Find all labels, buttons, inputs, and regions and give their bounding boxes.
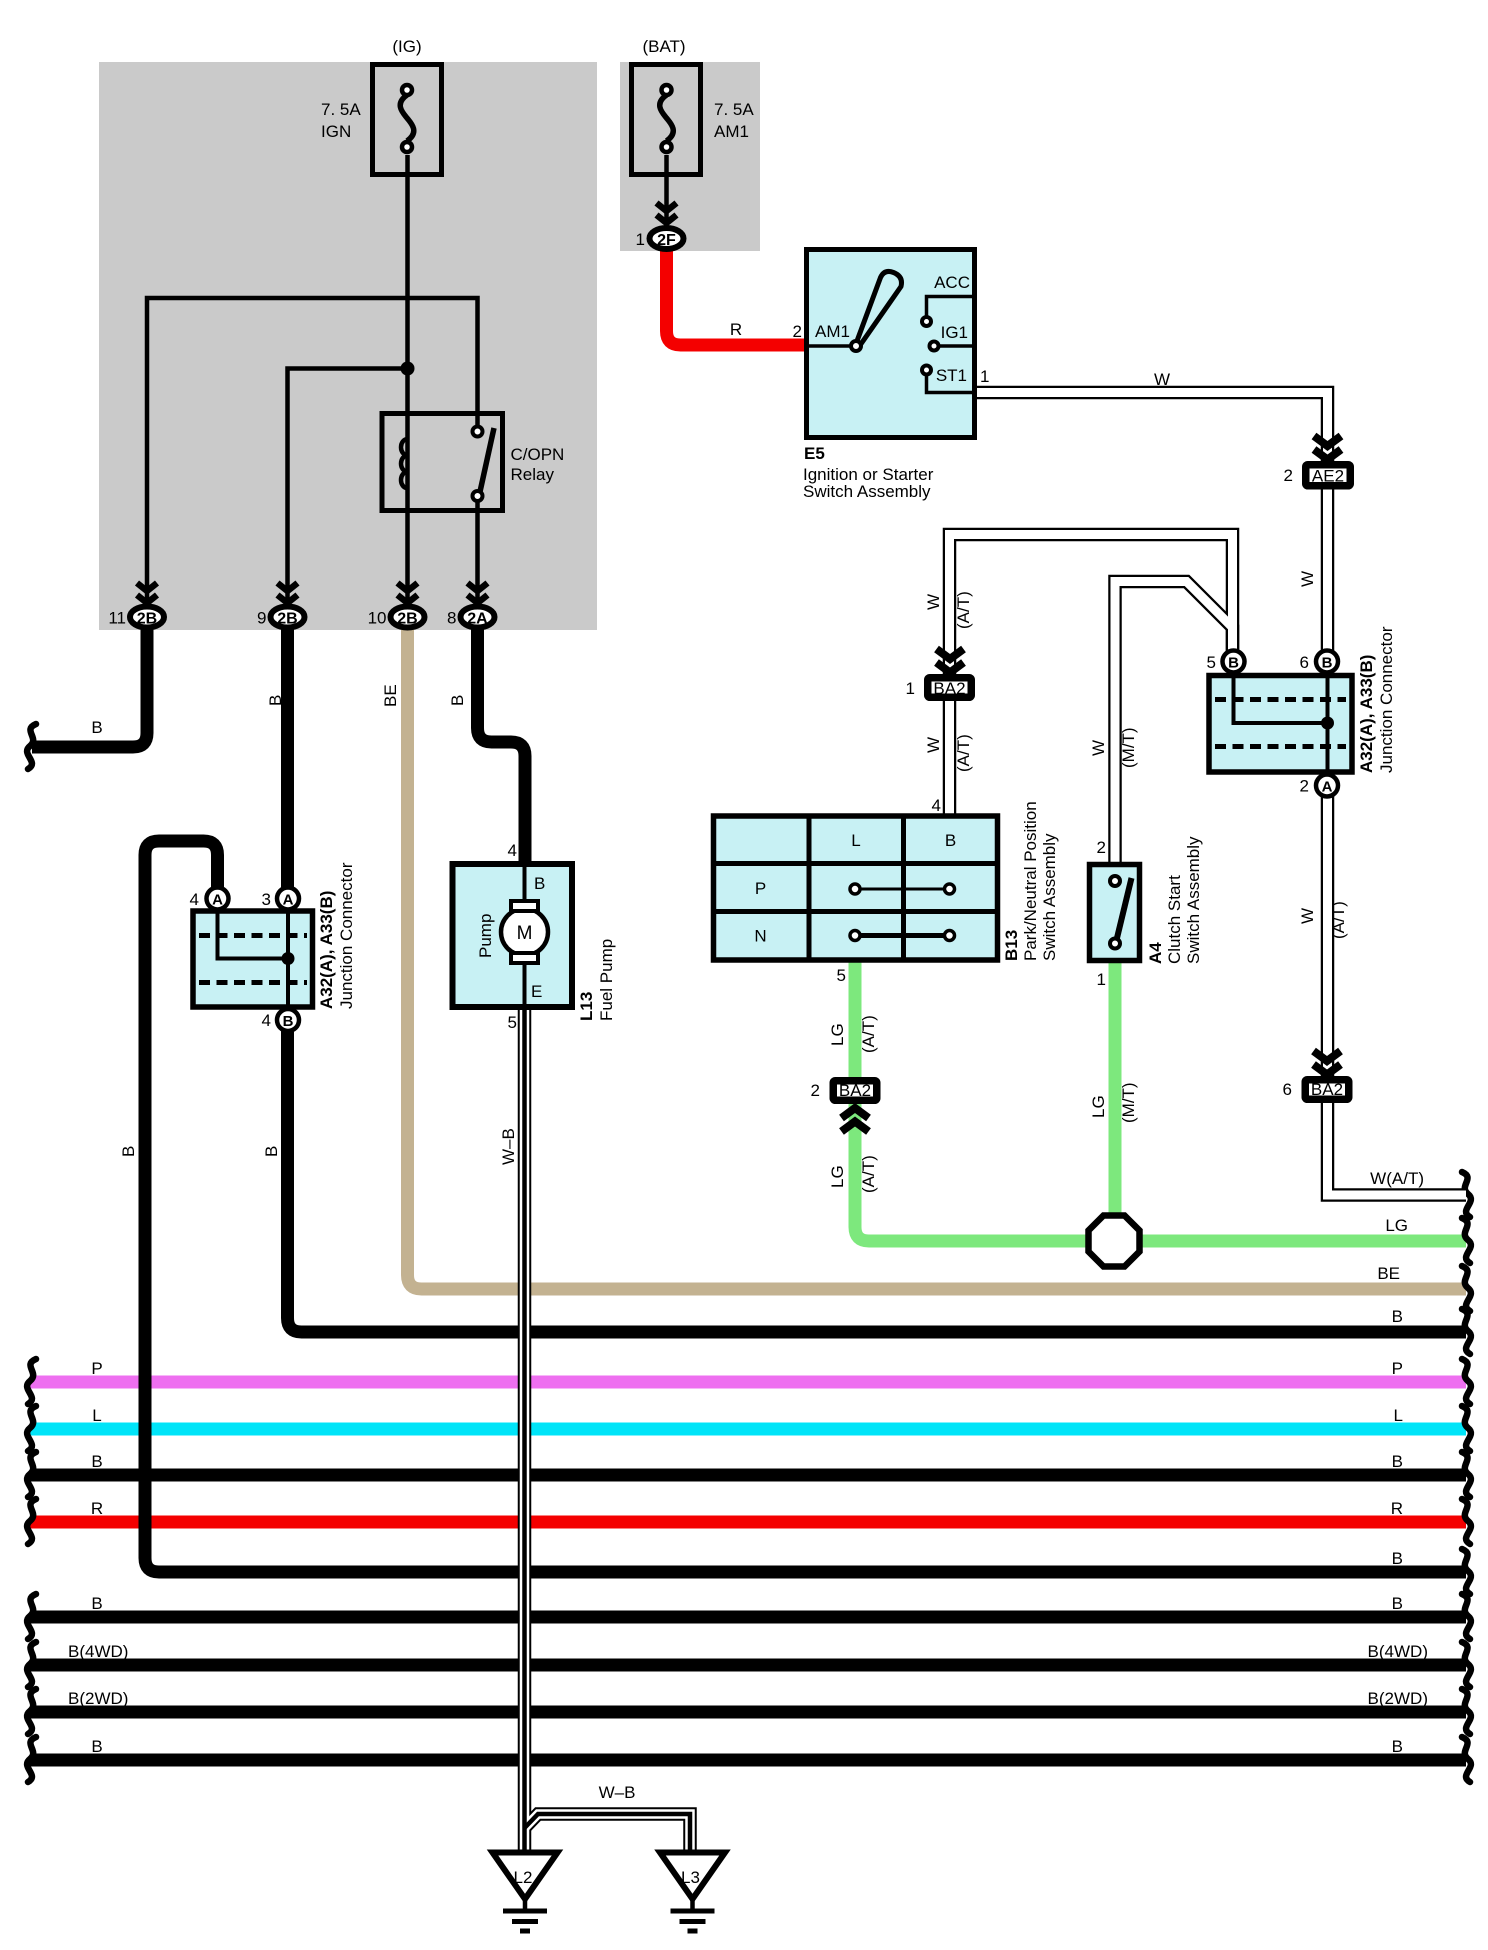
IG1 contact	[930, 342, 975, 351]
svg-text:B: B	[283, 1013, 294, 1030]
svg-text:B: B	[91, 718, 102, 737]
arrow into connector 8 2A	[468, 583, 488, 603]
break symbol left of B(2WD) bus	[27, 1689, 36, 1734]
svg-text:11: 11	[108, 609, 126, 628]
relay coil	[401, 439, 408, 488]
svg-text:LG: LG	[828, 1023, 847, 1046]
svg-text:B(2WD): B(2WD)	[68, 1689, 128, 1708]
svg-text:AM1: AM1	[815, 322, 850, 341]
break symbol left of B bus	[27, 1452, 36, 1497]
svg-text:B: B	[534, 874, 545, 893]
svg-text:L: L	[851, 831, 860, 850]
node junction dot on IG wire	[401, 362, 415, 376]
svg-text:2B: 2B	[397, 611, 417, 628]
wire W-B from fuel pump pin 5 to ground L2 : black outline	[518, 1007, 532, 1852]
break symbol right of B(4WD) bus	[1462, 1642, 1471, 1687]
svg-text:(IG): (IG)	[392, 37, 421, 56]
break symbol right of B bus 4	[1462, 1452, 1471, 1497]
wire B from junction connector 4A down to right edge	[145, 841, 1466, 1572]
wire B bus 3	[30, 1754, 1466, 1767]
shaded block: junction block area	[99, 62, 597, 630]
relay C/OPN box	[382, 414, 503, 511]
dashed rows of right junction connector	[1215, 697, 1346, 702]
connector box 6 BA2	[1305, 1080, 1349, 1100]
svg-text:(A/T): (A/T)	[859, 1015, 878, 1053]
wire R bus (red)	[30, 1516, 1466, 1529]
wire B bus 2	[30, 1611, 1466, 1624]
break symbol left of P bus	[27, 1359, 36, 1404]
wire B bus	[30, 1469, 1466, 1482]
svg-text:B: B	[1392, 1737, 1403, 1756]
wire B(2WD) bus	[30, 1706, 1466, 1719]
break symbol right of R bus	[1462, 1499, 1471, 1544]
svg-text:IG1: IG1	[941, 323, 968, 342]
svg-text:W: W	[924, 737, 943, 753]
svg-text:A: A	[212, 892, 223, 909]
svg-text:2: 2	[811, 1081, 820, 1100]
svg-text:B: B	[448, 695, 467, 706]
svg-text:(A/T): (A/T)	[954, 591, 973, 629]
svg-text:4: 4	[932, 796, 941, 815]
svg-text:Park/Neutral Position: Park/Neutral Position	[1021, 801, 1040, 961]
svg-text:2A: 2A	[467, 611, 488, 628]
terminal circle 4 A	[207, 888, 229, 910]
svg-text:R: R	[91, 1499, 103, 1518]
wire from relay switch bottom to connector 8 2A	[475, 500, 480, 604]
svg-text:2: 2	[1097, 838, 1106, 857]
svg-text:7. 5A: 7. 5A	[321, 100, 361, 119]
key lever symbol	[856, 271, 902, 347]
wire P bus (pink)	[30, 1376, 1466, 1389]
node dot right junction connector	[1321, 717, 1334, 730]
svg-text:1: 1	[1097, 970, 1106, 989]
wire B from connector 8 2A to fuel pump pin 4	[478, 617, 526, 866]
svg-text:C/OPN: C/OPN	[511, 445, 565, 464]
svg-text:A32(A), A33(B): A32(A), A33(B)	[317, 891, 336, 1009]
ACC contact	[922, 297, 974, 327]
svg-text:2: 2	[1300, 777, 1309, 796]
wire LG bus (light green) from B13 pin 5 to right edge	[855, 958, 1466, 1241]
svg-text:1: 1	[980, 367, 989, 386]
fuse 7.5A AM1	[632, 65, 701, 175]
junction connector A32(A),A33(B) right box	[1209, 676, 1352, 773]
break symbol left of B(4WD) bus	[27, 1642, 36, 1687]
arrow into AE2	[1314, 436, 1341, 460]
svg-text:M: M	[517, 923, 533, 944]
AM1 contact	[807, 341, 862, 351]
wire W-B branch to ground L3 : black outline	[525, 1814, 691, 1852]
svg-text:LG: LG	[1385, 1216, 1408, 1235]
fuse 7.5A IGN	[373, 65, 442, 175]
svg-text:P: P	[1392, 1359, 1403, 1378]
svg-text:4: 4	[262, 1011, 271, 1030]
svg-text:B: B	[945, 831, 956, 850]
svg-text:R: R	[730, 320, 742, 339]
arrow into 6 BA2	[1314, 1051, 1341, 1075]
svg-text:Junction Connector: Junction Connector	[337, 862, 356, 1009]
svg-text:9: 9	[257, 609, 266, 628]
wire W(A/T) from junction connector 2A through 6 BA2 to right edge : black outline	[1328, 790, 1467, 1195]
splice octagon on LG wire	[1089, 1216, 1140, 1267]
svg-text:N: N	[754, 927, 766, 946]
svg-text:1: 1	[636, 230, 645, 249]
break symbol right of P bus	[1462, 1359, 1471, 1404]
junction connector A32(A),A33(B) left box	[193, 911, 313, 1007]
wire B from junction connector 4B to right edge	[288, 1015, 1467, 1332]
break symbol right of B bus 6	[1462, 1594, 1471, 1639]
svg-text:ACC: ACC	[934, 273, 970, 292]
svg-text:4: 4	[508, 841, 517, 860]
svg-text:Junction Connector: Junction Connector	[1377, 626, 1396, 773]
svg-text:Switch Assembly: Switch Assembly	[1184, 836, 1203, 964]
svg-text:5: 5	[837, 966, 846, 985]
svg-text:Fuel Pump: Fuel Pump	[597, 939, 616, 1021]
break symbol left of L bus	[27, 1406, 36, 1451]
terminal circle 3 A	[277, 888, 299, 910]
svg-text:L3: L3	[681, 1868, 700, 1887]
arrow into connector 11 2B	[137, 583, 157, 603]
svg-text:A32(A), A33(B): A32(A), A33(B)	[1357, 655, 1376, 773]
break symbol left of B bus 2	[27, 1594, 36, 1639]
internal wire of right junction connector	[1234, 678, 1328, 723]
svg-text:(A/T): (A/T)	[859, 1155, 878, 1193]
svg-text:E5: E5	[804, 444, 825, 463]
wire from relay switch to connector 11 2B	[147, 298, 478, 604]
svg-text:B: B	[91, 1594, 102, 1613]
node dot left junction connector	[282, 952, 295, 965]
svg-text:B: B	[262, 1146, 281, 1157]
terminal circle 4 B	[277, 1009, 299, 1031]
arrow up into 2 BA2	[842, 1108, 869, 1132]
svg-text:IGN: IGN	[321, 122, 351, 141]
arrow into connector 9 2B	[278, 583, 298, 603]
svg-text:LG: LG	[1089, 1095, 1108, 1118]
break symbol left of B wire (11 2B)	[27, 724, 36, 769]
svg-text:2: 2	[793, 322, 802, 341]
svg-text:BA2: BA2	[1311, 1080, 1343, 1099]
svg-text:Switch Assembly: Switch Assembly	[1040, 833, 1059, 961]
svg-text:W: W	[1298, 908, 1317, 924]
svg-text:B: B	[1392, 1307, 1403, 1326]
wire W (white) from E5 ST1 to AE2 and junction connector 6B : black outline	[975, 393, 1328, 656]
B13 N row contacts	[850, 931, 955, 941]
svg-text:W: W	[1154, 370, 1170, 389]
svg-text:L: L	[92, 1406, 101, 1425]
arrow into connector 2F	[657, 203, 677, 223]
wire from fuse AM1 to connector 2F	[664, 155, 669, 226]
pump motor M	[501, 901, 548, 963]
svg-text:2B: 2B	[277, 611, 297, 628]
svg-text:5: 5	[1207, 653, 1216, 672]
break symbol right of BE bus	[1462, 1266, 1471, 1311]
break symbol right of B(2WD) bus	[1462, 1689, 1471, 1734]
wire B(4WD) bus	[30, 1659, 1466, 1672]
wire branch to connector 9 2B	[288, 369, 408, 605]
dashed rows of left junction connector	[199, 933, 307, 938]
svg-text:7. 5A: 7. 5A	[714, 100, 754, 119]
wire B from connector 11 2B to left break	[32, 617, 147, 747]
connector oval 11 2B	[130, 607, 164, 628]
svg-text:Switch Assembly: Switch Assembly	[803, 482, 931, 501]
svg-text:(M/T): (M/T)	[1119, 727, 1138, 768]
svg-text:B: B	[119, 1146, 138, 1157]
connector box 2 AE2	[1306, 465, 1351, 486]
wire BE (beige) from connector 10 2B to right edge	[408, 620, 1467, 1289]
svg-text:A4: A4	[1146, 942, 1165, 964]
svg-text:(BAT): (BAT)	[642, 37, 685, 56]
svg-text:BA2: BA2	[839, 1081, 871, 1100]
svg-text:1: 1	[906, 679, 915, 698]
svg-text:A: A	[1322, 779, 1333, 796]
svg-text:BA2: BA2	[933, 679, 965, 698]
svg-text:6: 6	[1300, 653, 1309, 672]
white cores of the W wires	[975, 393, 1328, 656]
svg-text:B: B	[1392, 1549, 1403, 1568]
svg-text:B(2WD): B(2WD)	[1368, 1689, 1428, 1708]
wire R (red) from connector 2F to ignition switch AM1	[667, 240, 807, 345]
break symbol right of LG bus	[1462, 1218, 1471, 1263]
wire from fuse IGN down through C/OPN relay coil to connector 10 2B	[405, 155, 410, 604]
svg-text:AE2: AE2	[1312, 467, 1344, 486]
wire L bus (light blue)	[30, 1423, 1466, 1436]
connector oval 10 2B	[391, 607, 425, 628]
svg-text:8: 8	[447, 609, 456, 628]
svg-text:(M/T): (M/T)	[1119, 1082, 1138, 1123]
ST1 contact	[922, 366, 974, 393]
svg-text:P: P	[755, 879, 766, 898]
arrow into 1 BA2	[937, 649, 964, 673]
svg-text:B: B	[1228, 655, 1239, 672]
svg-text:(A/T): (A/T)	[954, 734, 973, 772]
svg-text:2: 2	[1284, 466, 1293, 485]
svg-text:L13: L13	[577, 992, 596, 1021]
svg-text:B: B	[1322, 655, 1333, 672]
svg-text:B(4WD): B(4WD)	[1368, 1642, 1428, 1661]
wire B from connector 9 2B down to junction connector 3A	[281, 617, 294, 897]
svg-text:6: 6	[1283, 1080, 1292, 1099]
break symbol right of B bus 7	[1462, 1737, 1471, 1782]
B13 P row contacts	[850, 884, 955, 894]
svg-text:B: B	[91, 1452, 102, 1471]
svg-text:A: A	[283, 892, 294, 909]
svg-text:2F: 2F	[657, 232, 676, 249]
svg-text:P: P	[91, 1359, 102, 1378]
connector box 1 BA2	[928, 678, 972, 698]
svg-text:R: R	[1391, 1499, 1403, 1518]
svg-text:10: 10	[368, 609, 387, 628]
break symbol right of B bus 5	[1462, 1549, 1471, 1594]
svg-text:B13: B13	[1002, 930, 1021, 961]
break symbol left of B bus 3	[27, 1737, 36, 1782]
ground L3	[660, 1853, 725, 1932]
black stripe core of W-B wire	[522, 1007, 527, 1852]
ground L2	[493, 1853, 558, 1932]
ignition switch E5 box	[807, 250, 975, 438]
terminal circle 2 A	[1316, 775, 1338, 797]
svg-text:W(A/T): W(A/T)	[1370, 1169, 1424, 1188]
wire W (white) from junction connector 5B up over to 1 BA2 and B13 pin 4 : black outline	[950, 535, 1233, 817]
svg-text:L2: L2	[514, 1868, 533, 1887]
svg-text:L: L	[1394, 1406, 1403, 1425]
svg-text:W–B: W–B	[599, 1783, 636, 1802]
clutch start switch A4 box	[1090, 865, 1140, 961]
svg-text:B: B	[1392, 1452, 1403, 1471]
wire W (M/T) from clutch switch A4 pin 2 to junction connector 5B : black outline	[1115, 582, 1233, 867]
break symbol right of L bus	[1462, 1406, 1471, 1451]
svg-text:BE: BE	[1377, 1264, 1400, 1283]
terminal circle 5 B	[1223, 651, 1245, 673]
break symbol right of W(A/T) wire	[1462, 1172, 1471, 1217]
break symbol left of R bus	[27, 1499, 36, 1544]
fuel pump L13 box	[453, 864, 573, 1007]
svg-text:2B: 2B	[137, 611, 157, 628]
A4 switch contacts and blade	[1110, 876, 1132, 949]
svg-text:AM1: AM1	[714, 122, 749, 141]
pump internal wires	[523, 866, 527, 903]
svg-text:Pump: Pump	[476, 914, 495, 958]
connector oval 9 2B	[271, 607, 305, 628]
svg-text:E: E	[531, 982, 542, 1001]
svg-text:Clutch Start: Clutch Start	[1165, 875, 1184, 964]
svg-text:B: B	[266, 695, 285, 706]
wire LG from clutch switch A4 pin 1	[1109, 959, 1122, 1241]
terminal circle 6 B	[1316, 651, 1338, 673]
svg-text:(A/T): (A/T)	[1329, 901, 1348, 939]
svg-text:5: 5	[508, 1013, 517, 1032]
svg-text:ST1: ST1	[936, 366, 967, 385]
svg-text:3: 3	[262, 890, 271, 909]
B13 park/neutral position switch table	[714, 816, 998, 960]
connector oval 8 2A	[461, 607, 495, 628]
svg-text:W: W	[924, 594, 943, 610]
internal wire of left junction connector	[218, 913, 289, 959]
svg-text:B: B	[1392, 1594, 1403, 1613]
shaded block: battery fuse area	[620, 62, 760, 251]
relay switch	[473, 427, 495, 502]
svg-text:B: B	[91, 1737, 102, 1756]
connector oval 2F	[650, 228, 684, 249]
svg-text:W: W	[1298, 571, 1317, 587]
svg-text:4: 4	[190, 890, 199, 909]
svg-text:W–B: W–B	[499, 1128, 518, 1165]
svg-text:Relay: Relay	[511, 465, 555, 484]
svg-text:BE: BE	[381, 684, 400, 707]
svg-text:W: W	[1089, 740, 1108, 756]
connector box 2 BA2	[833, 1081, 877, 1101]
break symbol right of B bus	[1462, 1309, 1471, 1354]
svg-text:B(4WD): B(4WD)	[68, 1642, 128, 1661]
arrow into connector 10 2B	[398, 583, 418, 603]
svg-text:LG: LG	[828, 1165, 847, 1188]
